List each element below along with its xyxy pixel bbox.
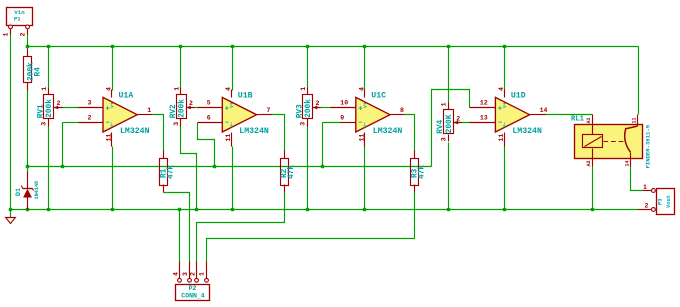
svg-text:47k: 47k bbox=[419, 165, 427, 179]
op-amp U1D bbox=[480, 87, 548, 147]
wire Vin bus to U1B pin4 bbox=[232, 47, 234, 91]
relay pin A2 bbox=[592, 149, 594, 167]
svg-text:8: 8 bbox=[400, 107, 404, 114]
wire Vin bus to U1D pin4 bbox=[504, 47, 506, 91]
svg-text:A1: A1 bbox=[586, 117, 592, 123]
svg-text:P3: P3 bbox=[658, 199, 664, 205]
wire R2 bottom to CONN_4 pin3 bbox=[197, 193, 285, 262]
svg-text:3: 3 bbox=[88, 100, 92, 107]
wire Vin bus to U1C pin4 bbox=[364, 47, 366, 91]
junction GND bus / U1C pin11 bbox=[363, 208, 367, 212]
junction Vin bus / RV4 bbox=[447, 45, 451, 49]
svg-text:+: + bbox=[498, 105, 502, 113]
svg-text:200K: 200K bbox=[446, 114, 454, 133]
wire RV2 wiper to U1B +in bbox=[193, 107, 199, 109]
svg-text:V−: V− bbox=[229, 122, 235, 128]
svg-text:−: − bbox=[358, 120, 362, 128]
svg-text:12: 12 bbox=[480, 100, 488, 107]
resistor R1 bbox=[160, 151, 168, 193]
wire Vref horizontal net bbox=[28, 166, 432, 168]
svg-text:RV3: RV3 bbox=[296, 104, 304, 118]
relay contact blade bbox=[625, 126, 637, 152]
wire U1B output to R2 top bbox=[271, 115, 285, 151]
junction GND bus / RV1 bbox=[47, 208, 51, 212]
junction GND bus / ground bbox=[9, 208, 13, 212]
svg-text:2: 2 bbox=[57, 100, 61, 107]
svg-text:3: 3 bbox=[173, 122, 180, 126]
junction Vref / U1A feedback bbox=[61, 165, 65, 169]
svg-text:A2: A2 bbox=[586, 160, 592, 166]
wire R3 bottom to CONN_4 pin4 bbox=[207, 193, 415, 262]
relay pin 11 bbox=[637, 115, 639, 127]
wire RV4 pin3 to GND bus bbox=[448, 143, 450, 210]
wire Vin bus to RV2 pin1 bbox=[180, 47, 182, 88]
junction GND bus / D1 bbox=[26, 208, 30, 212]
svg-text:U1D: U1D bbox=[511, 91, 526, 100]
connector P2 CONN_4 bbox=[172, 262, 209, 301]
junction Vref / U1C feedback bbox=[321, 165, 325, 169]
svg-text:7: 7 bbox=[267, 107, 271, 114]
junction Vref / U1B feedback bbox=[213, 165, 217, 169]
junction GND bus / U1D pin11 bbox=[503, 208, 507, 212]
wire U1C pin11 to GND bus bbox=[364, 147, 366, 210]
svg-text:+: + bbox=[106, 105, 110, 113]
svg-text:RV2: RV2 bbox=[170, 104, 178, 118]
wire GND bottom bus bbox=[11, 209, 639, 211]
wire relay A2 to GND bus bbox=[592, 167, 594, 210]
wire R1 bottom to CONN_4 pin2 bbox=[164, 193, 190, 262]
wire Vin bus to RV3 pin1 bbox=[307, 47, 309, 88]
svg-text:D1: D1 bbox=[15, 188, 22, 196]
junction GND bus / U1B pin11 bbox=[231, 208, 235, 212]
svg-text:1: 1 bbox=[41, 87, 48, 91]
junction Vref / R4-D1 bbox=[26, 165, 30, 169]
svg-text:47k: 47k bbox=[288, 165, 296, 179]
wire Vin top bus bbox=[28, 46, 639, 48]
svg-text:1: 1 bbox=[300, 87, 307, 91]
svg-text:10: 10 bbox=[340, 100, 348, 107]
svg-text:V−: V− bbox=[362, 122, 368, 128]
relay pin A1 bbox=[592, 115, 594, 135]
junction Vin bus / R4 bbox=[26, 45, 30, 49]
wire U1C -in horizontal bbox=[323, 122, 342, 124]
svg-text:9: 9 bbox=[340, 115, 344, 122]
relay pin 14 bbox=[630, 153, 632, 167]
junction Vin bus / RV1 bbox=[47, 45, 51, 49]
svg-text:2: 2 bbox=[645, 203, 649, 210]
wire Vin bus to RV1 pin1 bbox=[48, 47, 50, 88]
svg-text:5: 5 bbox=[207, 100, 211, 107]
connector P1 Vin bbox=[3, 8, 33, 37]
svg-text:V+: V+ bbox=[502, 102, 508, 108]
svg-text:14: 14 bbox=[624, 160, 630, 166]
wire U1A -in horizontal bbox=[63, 122, 79, 124]
wire U1A output to R1 top bbox=[153, 115, 164, 151]
potentiometer RV1 bbox=[37, 87, 62, 127]
svg-text:RV1: RV1 bbox=[37, 104, 45, 118]
relay actuator dashed link bbox=[604, 141, 625, 143]
svg-text:14: 14 bbox=[540, 107, 548, 114]
potentiometer RV3 bbox=[296, 87, 320, 127]
potentiometer RV2 bbox=[170, 87, 195, 127]
svg-text:V+: V+ bbox=[229, 102, 235, 108]
svg-text:1: 1 bbox=[3, 33, 10, 37]
svg-text:CONN_4: CONN_4 bbox=[181, 293, 205, 300]
svg-text:11: 11 bbox=[632, 117, 638, 123]
wire Vin bus to U1A pin4 bbox=[112, 47, 114, 91]
wire U1C output to R3 top bbox=[405, 115, 415, 151]
connector P3 Vout bbox=[639, 184, 675, 215]
junction GND bus / relay A2 bbox=[591, 208, 595, 212]
junction GND bus / RV4 bbox=[447, 208, 451, 212]
junction Vin bus / RV3 bbox=[306, 45, 310, 49]
svg-text:P1: P1 bbox=[14, 15, 21, 22]
svg-text:P2: P2 bbox=[189, 285, 197, 292]
wire U1B pin11 to GND bus bbox=[232, 147, 234, 210]
wire Vin bus drop to relay common bbox=[638, 47, 640, 115]
svg-text:200k: 200k bbox=[179, 99, 187, 118]
wire RV2 pin3 to GND bus (zigzag) bbox=[181, 126, 197, 210]
svg-text:FINDER-3611-9: FINDER-3611-9 bbox=[645, 124, 652, 168]
svg-text:47k: 47k bbox=[167, 165, 175, 179]
wire R4 bottom to D1 cathode bbox=[27, 90, 29, 173]
svg-text:V+: V+ bbox=[110, 102, 116, 108]
svg-text:U1B: U1B bbox=[238, 91, 253, 100]
op-amp U1B bbox=[207, 87, 271, 147]
junction Vin bus / U1B pin4 bbox=[231, 45, 235, 49]
svg-text:1: 1 bbox=[199, 272, 206, 276]
svg-text:R4: R4 bbox=[35, 67, 43, 77]
svg-text:RL1: RL1 bbox=[571, 116, 585, 124]
svg-text:RV4: RV4 bbox=[437, 119, 445, 133]
junction GND bus / RV2 bbox=[195, 208, 199, 212]
svg-text:3: 3 bbox=[41, 122, 48, 126]
relay coil bbox=[583, 135, 603, 148]
svg-text:1: 1 bbox=[173, 87, 180, 91]
svg-text:6: 6 bbox=[207, 115, 211, 122]
svg-text:U1A: U1A bbox=[119, 91, 134, 100]
svg-text:LM324N: LM324N bbox=[373, 127, 403, 136]
junction Vin bus / U1A pin4 bbox=[111, 45, 115, 49]
svg-text:+: + bbox=[358, 105, 362, 113]
wire U1C -in feedback down to Vref bbox=[322, 123, 324, 167]
svg-text:LM324N: LM324N bbox=[512, 127, 542, 136]
svg-text:2: 2 bbox=[189, 100, 193, 107]
svg-text:LM324N: LM324N bbox=[120, 127, 150, 136]
svg-text:Vout: Vout bbox=[666, 195, 672, 208]
svg-text:1N4148: 1N4148 bbox=[34, 181, 40, 200]
wire U1A pin11 to GND bus bbox=[112, 147, 114, 210]
svg-text:3: 3 bbox=[300, 122, 307, 126]
svg-text:2: 2 bbox=[20, 33, 27, 37]
svg-text:−: − bbox=[225, 120, 229, 128]
svg-text:2: 2 bbox=[88, 115, 92, 122]
ground bbox=[6, 210, 16, 224]
op-amp U1A bbox=[88, 87, 152, 147]
svg-text:4: 4 bbox=[225, 87, 232, 91]
svg-text:13: 13 bbox=[480, 115, 488, 122]
junction GND bus / U1A pin11 bbox=[111, 208, 115, 212]
junction Vin bus / U1C pin4 bbox=[363, 45, 367, 49]
svg-text:LM324N: LM324N bbox=[239, 127, 269, 136]
svg-text:1: 1 bbox=[147, 107, 151, 114]
resistor R3 bbox=[411, 151, 419, 193]
svg-text:3: 3 bbox=[182, 272, 189, 276]
op-amp U1C bbox=[340, 87, 404, 147]
wire RV3 wiper to U1C +in bbox=[319, 107, 333, 109]
svg-text:V+: V+ bbox=[362, 102, 368, 108]
resistor R2 bbox=[281, 151, 289, 193]
wire U1D pin11 to GND bus bbox=[504, 147, 506, 210]
svg-text:1: 1 bbox=[643, 184, 647, 191]
junction Vin bus / RV2 bbox=[179, 45, 183, 49]
svg-text:2: 2 bbox=[316, 100, 320, 107]
wire U1A -in feedback down to Vref bbox=[62, 123, 64, 167]
wire P1 pin1 to GND bus (left rail) bbox=[10, 35, 12, 210]
wire RV4 wiper to U1D -in bbox=[454, 122, 471, 124]
resistor R4 bbox=[24, 50, 43, 91]
diode D1 zener bbox=[15, 172, 40, 210]
potentiometer RV4 bbox=[437, 102, 461, 141]
wire P1 pin2 down to Vin bus / R4 bbox=[27, 35, 29, 50]
svg-text:3: 3 bbox=[440, 137, 447, 141]
svg-text:V−: V− bbox=[110, 122, 116, 128]
svg-text:200k: 200k bbox=[305, 99, 313, 118]
junction Vin bus / U1D pin4 bbox=[503, 45, 507, 49]
svg-text:11: 11 bbox=[225, 134, 232, 142]
svg-text:200k: 200k bbox=[46, 99, 54, 118]
relay RL1 bbox=[571, 115, 652, 169]
svg-text:2: 2 bbox=[456, 115, 460, 122]
wire Vref up and over to U1D +in bbox=[432, 90, 470, 167]
wire U1B -in feedback to Vref bbox=[198, 123, 215, 167]
svg-text:U1C: U1C bbox=[371, 91, 386, 100]
svg-text:2: 2 bbox=[190, 272, 197, 276]
wire RV1 pin3 to GND bus bbox=[48, 126, 50, 210]
junction GND bus / CONN_4 pin1 bbox=[178, 208, 182, 212]
svg-text:+: + bbox=[225, 105, 229, 113]
wire GND bus to CONN_4 pin1 bbox=[179, 210, 181, 262]
wire U1D output to relay coil A1 bbox=[545, 114, 593, 116]
wire relay contact 14 to P3 pin1 bbox=[631, 167, 643, 191]
svg-text:1: 1 bbox=[441, 102, 448, 106]
wire Vin bus to RV4 pin1 bbox=[448, 47, 450, 103]
svg-text:4: 4 bbox=[172, 272, 179, 276]
svg-text:−: − bbox=[498, 120, 502, 128]
svg-text:V−: V− bbox=[502, 122, 508, 128]
junction GND bus / RV3 bbox=[306, 208, 310, 212]
svg-text:−: − bbox=[106, 120, 110, 128]
wire RV3 pin3 to GND bus bbox=[307, 126, 309, 210]
wire RV1 wiper to U1A +in bbox=[61, 107, 79, 109]
